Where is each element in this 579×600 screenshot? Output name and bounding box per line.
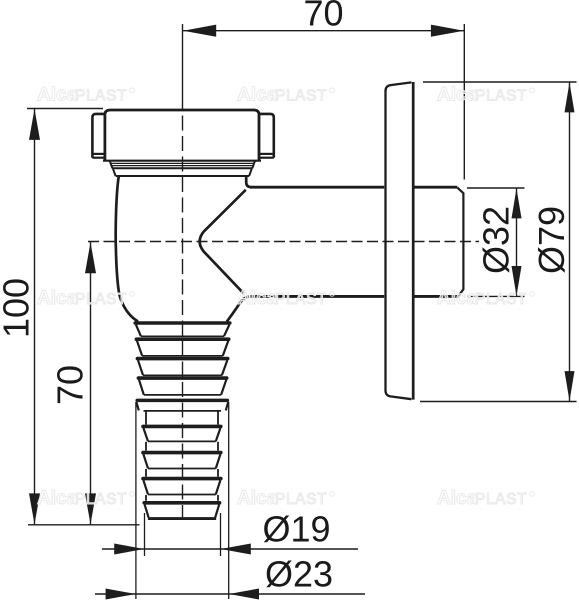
collar thread lines — [111, 162, 254, 164]
svg-text:100: 100 — [0, 278, 37, 338]
hose barb D sides — [139, 380, 144, 395]
arrowhead O32 up — [512, 188, 522, 218]
hose barb H bar — [144, 501, 219, 505]
hose barb G sides — [143, 480, 148, 494]
hose barb C sides — [138, 360, 143, 375]
hose neck 2 — [145, 442, 147, 451]
svg-text:Alca: Alca — [237, 85, 278, 106]
svg-text:Alca: Alca — [37, 288, 78, 309]
watermark row3 col2 — [237, 488, 334, 509]
union nut left tab — [92, 114, 105, 158]
threaded collar band 1 — [110, 161, 113, 168]
hose barb E bar — [143, 425, 221, 429]
dimension 70 (left inner) line — [90, 242, 92, 525]
arrowhead dim100 down — [29, 493, 40, 524]
hose neck 1 — [145, 411, 147, 425]
svg-text:PLAST: PLAST — [75, 291, 127, 308]
arrowhead O23 right — [229, 589, 259, 600]
dimension O32 bottom extension line — [467, 295, 525, 297]
arrowhead dim70top left — [183, 25, 216, 37]
hose barb E bottom edge — [148, 440, 216, 442]
arrowhead dim70left down — [85, 493, 96, 524]
svg-text:Ø19: Ø19 — [262, 509, 330, 550]
arrowhead dim70left up — [85, 242, 96, 273]
outlet pipe end face — [457, 188, 463, 297]
body left edge — [116, 176, 138, 321]
body right edge lower — [227, 297, 249, 322]
arrowhead O79 down — [565, 371, 575, 401]
dimension O19 line — [102, 548, 358, 550]
hose barb D bar — [138, 376, 226, 380]
arrowhead O19 right — [221, 544, 251, 555]
watermark row3 col1 — [37, 488, 134, 509]
hose barb B bar — [136, 337, 228, 341]
dimension 70 (top) line — [183, 30, 464, 32]
svg-text:Ø32: Ø32 — [476, 206, 517, 274]
svg-text:PLAST: PLAST — [275, 291, 327, 308]
wall flange right edge — [412, 82, 415, 400]
hose neck 4 — [145, 495, 147, 501]
svg-text:Alca: Alca — [437, 85, 478, 106]
outlet pipe bottom edge — [251, 295, 385, 298]
hose neck 3 — [145, 469, 147, 477]
watermark row2 col2 — [237, 288, 334, 309]
threaded collar band 2 — [113, 168, 116, 176]
horizontal centerline (pipe axis) — [88, 241, 479, 243]
svg-text:70: 70 — [50, 365, 91, 405]
wall flange left outline — [386, 82, 412, 399]
dimension 100 line — [34, 109, 36, 525]
svg-text:Alca: Alca — [37, 488, 78, 509]
union nut body — [105, 110, 259, 161]
hose barb A sides — [136, 325, 141, 337]
svg-text:PLAST: PLAST — [475, 491, 527, 508]
stop ring sides — [136, 402, 138, 410]
stop ring bottom edge — [144, 410, 222, 412]
hose barb A bottom edge — [141, 335, 224, 337]
dimension O79 top extension line — [423, 81, 577, 83]
hose barb B sides — [137, 341, 142, 356]
svg-text:Alca: Alca — [437, 288, 478, 309]
hose barb F bottom edge — [148, 468, 216, 470]
arrowhead O32 down — [512, 266, 522, 296]
svg-text:Alca: Alca — [237, 288, 278, 309]
outlet pipe top edge — [250, 186, 384, 189]
watermark row1 col3 — [437, 85, 534, 106]
hose barb E sides — [143, 428, 148, 441]
svg-text:PLAST: PLAST — [475, 88, 527, 105]
body right edge upper — [246, 176, 251, 187]
dimension 100/70 bottom extension line — [28, 524, 140, 526]
svg-text:Alca: Alca — [237, 488, 278, 509]
hose barb G bar — [143, 477, 221, 481]
arrowhead dim70top right — [431, 25, 464, 37]
dimension O79 bottom extension line — [420, 401, 577, 403]
svg-text:PLAST: PLAST — [275, 88, 327, 105]
hose barb H sides — [145, 504, 149, 517]
watermark row3 col3 — [437, 488, 534, 509]
union nut bottom edge — [103, 160, 261, 162]
dimension O23 extension lines — [135, 402, 137, 599]
dimension 100 top extension line — [27, 108, 103, 110]
hose barb F bar — [143, 451, 221, 455]
watermark row2 col3 — [437, 288, 534, 309]
hose barb D bottom edge — [144, 394, 221, 396]
svg-text:PLAST: PLAST — [75, 491, 127, 508]
hose barb G bottom edge — [148, 494, 216, 496]
arrowhead O19 left — [114, 544, 144, 555]
dimension 70 (top) right extension line — [463, 24, 465, 180]
svg-text:PLAST: PLAST — [475, 291, 527, 308]
stop ring bar — [137, 399, 227, 403]
hose barb C bottom edge — [143, 374, 222, 376]
hose barb B bottom edge — [142, 355, 223, 357]
vertical centerline (body axis) — [182, 24, 184, 95]
arrowhead O23 left — [106, 589, 136, 600]
hose barb A bar — [135, 321, 230, 325]
dimension O19 extension lines — [144, 513, 146, 556]
watermark row1 col1 — [37, 85, 134, 106]
dimension O32 top extension line — [467, 187, 525, 189]
hose barb H bottom edge — [148, 517, 216, 520]
arrowhead dim100 up — [29, 109, 40, 140]
body funnel V — [200, 190, 246, 294]
svg-text:70: 70 — [303, 0, 343, 34]
svg-text:Ø23: Ø23 — [265, 554, 333, 595]
watermark row2 col1 — [37, 288, 134, 309]
hose barb C bar — [137, 357, 227, 361]
svg-text:Ø79: Ø79 — [531, 206, 572, 274]
arrowhead O79 up — [565, 82, 575, 112]
hose barb F sides — [143, 454, 148, 468]
svg-text:PLAST: PLAST — [275, 491, 327, 508]
dimension O32 line — [516, 188, 518, 296]
dimension O79 line — [569, 82, 571, 402]
svg-text:Alca: Alca — [437, 488, 478, 509]
watermark row1 col2 — [237, 85, 334, 106]
union nut right tab — [259, 114, 274, 158]
svg-text:PLAST: PLAST — [75, 88, 127, 105]
dimension O23 line — [95, 593, 365, 595]
svg-text:Alca: Alca — [37, 85, 78, 106]
